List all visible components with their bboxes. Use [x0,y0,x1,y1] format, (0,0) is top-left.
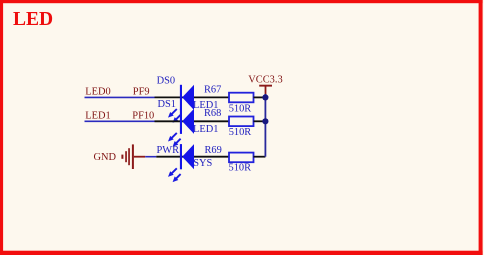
pin wire R68 right [254,120,266,122]
svg-text:DS0: DS0 [157,75,175,86]
LED DS1 [168,109,194,147]
LED DS2 (PWR/SYS) [168,144,194,182]
resistor R68 [229,117,254,127]
pin wire R67 right [254,96,266,98]
pin wire R69 right [254,156,266,158]
svg-text:R69: R69 [205,145,222,156]
svg-text:SYS: SYS [193,158,212,169]
LED DS0 [168,85,194,123]
wire VCC bus vertical [264,94,266,157]
wire GND maroon [134,156,145,158]
pin wire DS0 left [155,96,230,98]
power VCC3.3 symbol [259,85,272,95]
resistor R69 [229,153,254,163]
svg-text:510R: 510R [229,163,252,174]
wire net LED1 [85,120,155,122]
svg-text:R67: R67 [204,84,221,95]
svg-text:LED1: LED1 [193,124,218,135]
ground symbol [121,144,133,169]
svg-text:VCC3.3: VCC3.3 [248,75,282,86]
resistor R67 [229,93,254,103]
junction node row1 [262,94,268,100]
svg-text:510R: 510R [229,127,252,138]
svg-text:GND: GND [94,152,117,163]
pin wire PWR LED left [156,156,229,158]
svg-text:PWR: PWR [157,145,180,156]
svg-text:510R: 510R [229,103,252,114]
svg-text:DS1: DS1 [158,99,176,110]
junction node row2 [262,118,268,124]
wire net LED0 [85,96,155,98]
svg-text:LED: LED [13,9,53,30]
svg-text:PF10: PF10 [132,111,154,122]
svg-text:R68: R68 [204,108,221,119]
pin wire DS1 left [155,120,230,122]
wire GND blue [145,156,156,158]
svg-text:LED1: LED1 [85,111,110,122]
svg-text:LED0: LED0 [85,87,110,98]
svg-text:PF9: PF9 [133,87,150,98]
